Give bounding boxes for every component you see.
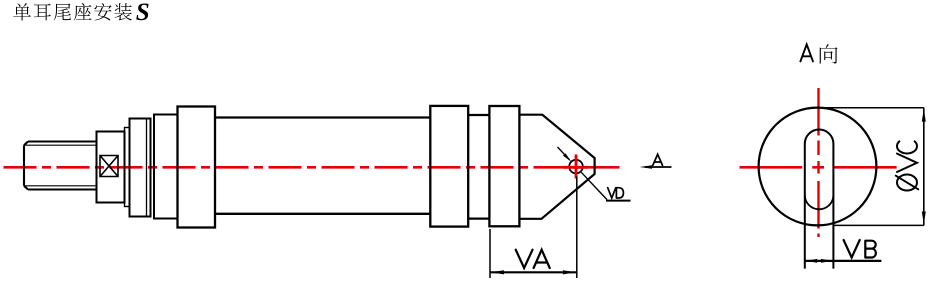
dimension øVC extension lines <box>819 108 924 226</box>
right view vertical centerline <box>817 88 819 237</box>
main horizontal centerline (left view axis) <box>4 166 623 169</box>
title text 单耳尾座安装S <box>13 3 148 20</box>
clevis tail outline <box>519 115 594 219</box>
dimension text VA <box>516 250 533 268</box>
rod thread minor lines <box>25 145 97 186</box>
view label A <box>653 154 663 165</box>
clevis ear slot (rounded top) <box>805 129 834 268</box>
rod end block <box>97 132 125 203</box>
dimension text VB <box>844 240 860 258</box>
dimension øVC line <box>923 108 925 226</box>
end cap circle <box>759 108 877 226</box>
leader arrow into hole <box>558 147 570 160</box>
threaded rod outline with chamfer <box>24 142 97 190</box>
hole horizontal red bar <box>564 166 589 169</box>
crossed-square symbol on rod <box>100 156 118 177</box>
rear flange 2 <box>489 106 519 226</box>
dimension VA extension lines <box>490 177 577 279</box>
section between flanges <box>468 115 489 219</box>
ear bottom arc <box>805 195 834 209</box>
label VD <box>608 188 616 198</box>
view direction arrow A <box>645 166 672 168</box>
collar inner face line <box>146 119 148 216</box>
collar step <box>125 128 130 207</box>
dimension VB line and leader <box>805 260 882 262</box>
front mounting flange <box>178 107 216 228</box>
dimension text øVC (rotated) <box>896 141 918 190</box>
head section rect <box>154 115 178 219</box>
clevis pin hole <box>569 160 583 174</box>
right view horizontal centerline <box>740 166 897 169</box>
dimension VA line <box>490 271 577 273</box>
label A向 <box>800 44 813 61</box>
collar ring <box>130 119 151 217</box>
leader line to VD label <box>581 172 607 199</box>
cylinder body tube lines <box>215 118 430 214</box>
rear flange 1 <box>430 106 468 227</box>
VD underline <box>606 200 631 202</box>
hole vertical centerline (red) <box>575 155 578 179</box>
